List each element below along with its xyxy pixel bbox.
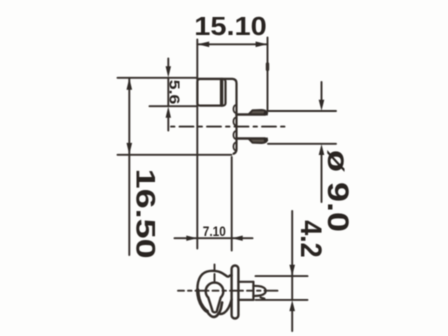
barb scallops on flange left: [233, 105, 236, 151]
ext bottom: [118, 154, 232, 156]
svg-text:7.10: 7.10: [203, 223, 226, 239]
ext right long (flange): [231, 157, 233, 251]
centerline horizontal: [178, 290, 281, 292]
pin shaft bottom: [238, 299, 253, 301]
arrow above pointing down: [321, 82, 323, 101]
arrow up at bottom ext: [291, 310, 293, 331]
arrow below pointing up: [167, 118, 169, 131]
head inner thick bar: [220, 80, 223, 105]
hook right limb: [218, 300, 231, 315]
svg-text:16.50: 16.50: [131, 169, 161, 259]
pin step face: [252, 282, 254, 300]
flange bar: [232, 266, 239, 319]
arrow left: [198, 42, 210, 48]
dim line vertical: [291, 211, 293, 300]
top barb: [249, 110, 267, 114]
ext top: [268, 110, 336, 112]
pin bullet nose: [253, 286, 265, 296]
ext bottom: [256, 299, 308, 301]
ext top: [118, 77, 198, 79]
ext bottom: [268, 143, 336, 145]
pin shaft top: [238, 281, 253, 283]
ext bottom 5.6: [150, 105, 197, 107]
hook outer top arc: [197, 271, 231, 294]
arrow down: [127, 143, 133, 155]
svg-text:5.6: 5.6: [166, 80, 182, 105]
svg-text:4.2: 4.2: [294, 220, 327, 258]
bottom prong line: [237, 137, 266, 140]
ext line right: [267, 38, 269, 111]
body top outline to flange corner: [197, 79, 236, 154]
svg-text:15.10: 15.10: [194, 11, 266, 41]
arrow right: [256, 42, 268, 48]
ext line left long: [196, 40, 198, 249]
arrow down at top ext: [289, 265, 295, 276]
arrow above pointing down: [167, 59, 169, 68]
centerline vertical hook: [214, 265, 216, 284]
ext top: [256, 275, 308, 277]
bottom barb: [249, 139, 267, 143]
dim line 7.10: [175, 237, 253, 239]
dim line 15.10: [197, 43, 267, 45]
arrow below pointing up: [321, 154, 323, 202]
hook lower-left limb thick: [198, 290, 207, 311]
inner keyhole circle + slot: [206, 283, 224, 313]
pin nose bottom tick: [261, 298, 265, 299]
top prong line: [237, 113, 266, 116]
top barb knot: [263, 111, 268, 115]
bottom barb knot: [263, 137, 268, 141]
dim line through: [167, 78, 169, 106]
hook tail curl: [207, 303, 222, 317]
arrow up: [127, 78, 133, 90]
knot on right ext line: [266, 64, 269, 70]
head rect outline: [197, 79, 225, 106]
centerline upper view: [171, 126, 288, 128]
dim line vertical long: [128, 78, 130, 255]
